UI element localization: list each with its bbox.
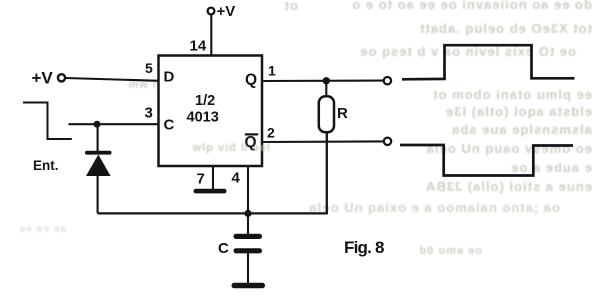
ground (below capacitor) [232,283,266,288]
wire: diode anode down to bottom rail [97,175,99,213]
diode D1 [85,151,112,176]
wire: +V to pin 14 [210,15,212,55]
op-amp U1 : 1/2 4013 flip-flop body [159,56,263,167]
svg-text:4: 4 [232,170,241,187]
node: clock/diode junction [94,121,101,128]
svg-text:2: 2 [267,125,275,141]
input pulse waveform (Ent.) [23,103,72,140]
wire: resistor down to bottom rail [326,132,328,214]
wire: junction to capacitor [247,213,249,235]
svg-text:Fig. 8: Fig. 8 [344,238,384,257]
Q output waveform [402,45,575,79]
capacitor C [218,234,262,257]
svg-text:1: 1 [268,63,276,79]
node: Q/resistor junction [323,77,330,84]
ground (pin 7 bar) [194,189,227,194]
pin 4 wire [247,166,249,213]
svg-text:D: D [164,69,175,86]
wire: bottom rail [98,212,327,214]
svg-text:5: 5 [145,60,153,76]
svg-text:Ent.: Ent. [33,158,59,173]
faint page bleed-through text (decorative background) [308,0,592,12]
wire: capacitor to ground [247,253,249,284]
Qbar output waveform [400,145,573,176]
svg-text:1/2: 1/2 [195,93,215,109]
+V supply terminal (top) [208,3,236,20]
+V input terminal (left) [32,69,66,88]
svg-text:R: R [337,105,348,122]
wire: junction down to resistor [325,81,327,97]
svg-text:Q: Q [245,72,257,89]
svg-text:C: C [218,240,229,257]
wire: Qbar (pin 2) output line [262,140,384,143]
svg-text:+V: +V [32,69,54,88]
resistor R [319,96,348,132]
Q output terminal [384,77,391,84]
svg-text:C: C [164,117,175,134]
svg-text:3: 3 [145,105,153,122]
svg-text:14: 14 [190,38,207,55]
node: pin4/capacitor junction on bottom rail [244,210,251,217]
wire: Q (pin 1) output line [262,80,384,83]
wire: +V terminal to pin 5 (D input) [65,78,158,81]
svg-text:4013: 4013 [187,110,219,126]
pin 7 wire [212,166,214,190]
svg-text:+V: +V [217,3,236,20]
svg-text:7: 7 [197,171,205,188]
wire: junction down to diode cathode [97,124,99,152]
wire: clock line to pin 3 (C input) [69,123,159,125]
Qbar output terminal [384,138,391,145]
